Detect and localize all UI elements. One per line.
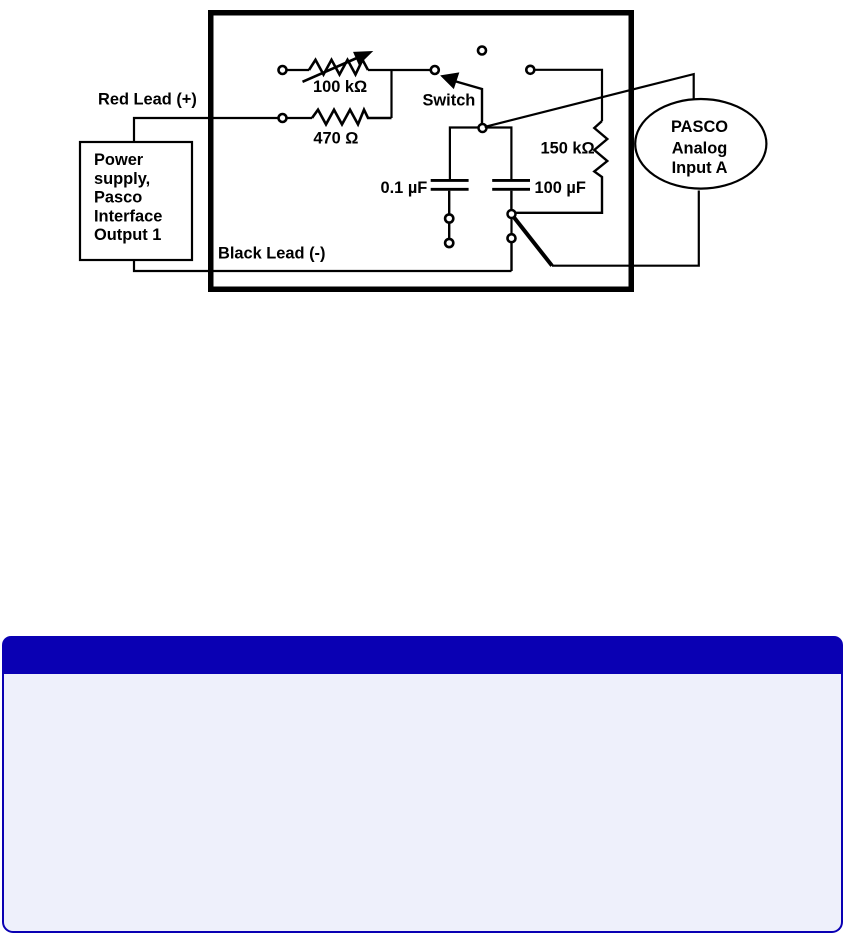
thick lead from node I to analog input (514, 217, 552, 266)
svg-text:150 kΩ: 150 kΩ (541, 140, 595, 158)
wire throw terminal to 150k resistor (535, 70, 603, 121)
wire node F to PASCO analog input top (485, 74, 694, 127)
svg-text:Output 1: Output 1 (94, 226, 161, 244)
wire below C2 (510, 191, 512, 210)
svg-text:470 Ω: 470 Ω (313, 130, 358, 148)
resistor R3 150 kOhm zigzag (516, 121, 608, 213)
capacitor C1 0.1 uF plates (431, 179, 469, 182)
terminal J below C2 (508, 234, 516, 242)
wire to PASCO analog input bottom (552, 191, 699, 266)
switch node F (479, 124, 487, 132)
terminal H below C1 (445, 239, 453, 247)
svg-text:Interface: Interface (94, 207, 162, 225)
power supply box (80, 142, 192, 260)
svg-text:PASCO: PASCO (671, 118, 728, 136)
svg-text:0.1 µF: 0.1 µF (381, 179, 428, 197)
capacitor C2 100 uF plates (492, 179, 530, 182)
potentiometer R1 100 kOhm zigzag (309, 60, 368, 75)
svg-text:Analog: Analog (672, 139, 728, 157)
svg-text:Power: Power (94, 151, 144, 169)
potentiometer arrow (303, 58, 359, 82)
wire red lead from power supply to 470 ohm terminal (134, 118, 278, 142)
svg-text:100 µF: 100 µF (535, 179, 586, 197)
svg-text:Black Lead (-): Black Lead (-) (218, 245, 325, 263)
wire node A to potentiometer (287, 69, 309, 71)
resistor R2 470 Ohm zigzag (312, 110, 392, 125)
wire potentiometer to switch pivot (368, 69, 431, 71)
node I below C2 (508, 210, 516, 218)
wire node B to resistor (287, 117, 312, 119)
wire black lead from power supply bottom to capacitor branch (134, 260, 512, 271)
switch lever with arrowhead (456, 82, 482, 125)
terminal node A (100k left) (279, 66, 287, 74)
junction wire between resistor rows (390, 70, 392, 118)
switch throw terminal E (526, 66, 534, 74)
svg-text:Switch: Switch (423, 92, 476, 110)
spare terminal D (478, 47, 486, 55)
svg-text:Pasco: Pasco (94, 189, 142, 207)
terminal G below C1 (445, 214, 453, 222)
PASCO Analog Input A ellipse (635, 99, 766, 189)
info panel body (2, 674, 843, 933)
wire terminal J to black lead (510, 242, 512, 271)
node F wires to capacitors (450, 128, 512, 181)
switch pivot terminal C (431, 66, 439, 74)
wire between terminals G H (448, 223, 450, 239)
info panel header bar (2, 636, 843, 674)
svg-text:100 kΩ: 100 kΩ (313, 78, 367, 96)
svg-text:supply,: supply, (94, 170, 150, 188)
terminal node B (470 left) (279, 114, 287, 122)
svg-text:Input A: Input A (672, 159, 728, 177)
wire between node I and terminal J (510, 218, 512, 234)
svg-text:Red Lead (+): Red Lead (+) (98, 91, 197, 109)
wire below C1 (448, 191, 450, 214)
circuit board outline box (211, 13, 632, 290)
